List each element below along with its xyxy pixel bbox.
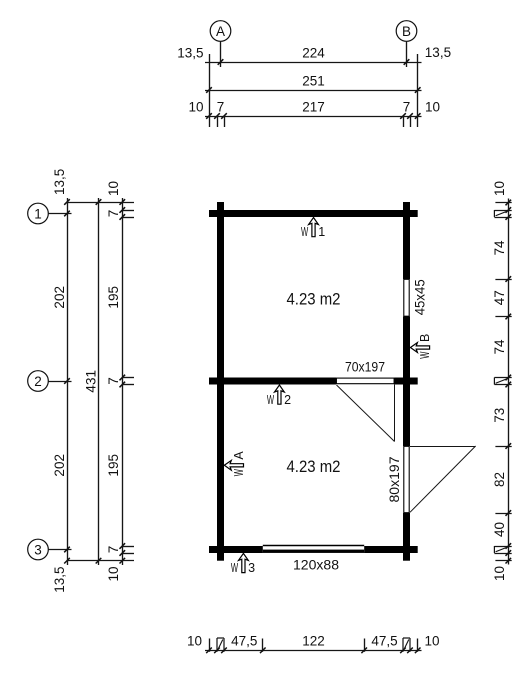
left dim line 10/7/195/7/195/7/10 [122,198,124,565]
svg-text:A: A [232,451,246,460]
grid bubble B [396,21,417,42]
grid bubble A [210,21,231,42]
marker W3 arrow at bottom wall [238,553,248,572]
bottom tick window left [262,639,264,652]
svg-text:122: 122 [302,634,325,649]
svg-text:224: 224 [302,46,325,61]
left block wall face marks grid 3 [122,546,134,548]
grid B riser to dim line [406,41,408,67]
right tick at bottom stub [495,560,511,562]
top block right extension line [417,54,419,127]
bottom wall symbol left [216,638,218,652]
wall: left exterior wall (vertical) [217,202,224,561]
door 70x197 swing (leaf + diagonal) [394,385,396,442]
door 70x197 opening symbol in middle wall [336,378,394,384]
svg-text:74: 74 [492,339,507,355]
window 45x45 symbol in right wall [403,279,410,317]
left block wall face marks grid 2 [122,377,134,379]
svg-text:B: B [418,334,432,342]
svg-text:40: 40 [492,522,507,537]
left dim line 13,5/202/202/13,5 [67,198,69,565]
right tick at top stub [495,202,511,204]
left dim line 431 (overall) [98,198,100,565]
bottom wall symbol right [402,638,404,652]
top block wall face marks left [217,116,219,127]
svg-text:10: 10 [188,100,203,115]
svg-text:251: 251 [302,74,325,89]
svg-text:10: 10 [187,634,202,649]
svg-text:10: 10 [425,100,440,115]
marker W2 arrow at middle wall [275,385,285,404]
left block bottom connector line [67,560,134,562]
svg-text:13,5: 13,5 [52,567,67,593]
svg-text:13,5: 13,5 [425,45,451,60]
wall: right exterior wall segment between window and door [403,317,410,447]
svg-text:47: 47 [492,290,507,305]
window 120x88 symbol in bottom wall [263,545,364,553]
right tick door top [495,446,511,448]
door 80x197 opening symbol in right wall [404,446,409,512]
wall: middle partition wall right segment [395,378,418,385]
top block left extension line [209,54,211,127]
bottom tick right stub [417,639,419,652]
svg-text:4.23 m2: 4.23 m2 [287,457,341,476]
svg-text:1: 1 [34,206,42,221]
svg-text:202: 202 [52,286,67,309]
svg-text:45x45: 45x45 [412,279,427,315]
svg-text:10: 10 [492,181,507,196]
bottom tick left stub [209,639,211,652]
wall: bottom exterior wall [209,546,418,553]
left block wall face marks grid 1 [122,210,134,212]
svg-text:1: 1 [318,225,325,239]
right tick door bottom [495,513,511,515]
svg-text:10: 10 [492,566,507,581]
svg-text:W: W [301,225,308,239]
svg-text:2: 2 [34,374,42,389]
svg-text:13,5: 13,5 [52,169,67,195]
svg-text:217: 217 [302,100,325,115]
svg-text:7: 7 [106,377,121,385]
svg-text:7: 7 [106,210,121,218]
svg-text:B: B [402,24,411,39]
svg-text:W: W [231,561,238,575]
marker W1 arrow at top wall [309,218,319,237]
marker WA arrow at left wall [224,460,243,470]
svg-text:A: A [216,24,225,39]
grid bubble 3 [28,539,49,560]
right wall symbol at grid 3 [494,546,511,548]
svg-text:195: 195 [106,286,121,309]
right tick window bottom [495,316,511,318]
marker WB arrow at right wall [410,343,429,353]
top dim line 224 (A-B) [205,62,422,64]
top dim line 251 (overall) [205,90,422,92]
wall: right exterior wall upper segment [403,202,410,279]
wall: right exterior wall bottom segment [403,513,410,561]
grid bubble 2 [28,371,49,392]
svg-text:7: 7 [217,100,225,115]
grid 2 stub line [48,381,71,383]
bottom dim line [205,650,422,652]
grid bubble 1 [28,203,49,224]
svg-text:3: 3 [248,561,255,575]
svg-text:3: 3 [34,542,42,557]
wall: middle partition wall left segment [209,378,336,385]
top block wall face marks right [403,116,405,127]
svg-text:82: 82 [492,472,507,487]
svg-text:13,5: 13,5 [177,46,203,61]
svg-text:10: 10 [106,181,121,196]
right wall symbol at grid 2 [494,377,511,379]
top dim line 10/7/217/7/10 [205,116,422,118]
grid 3 stub line [48,549,71,551]
svg-text:10: 10 [425,634,440,649]
svg-text:80x197: 80x197 [387,457,402,503]
wall: top exterior wall (horizontal, with log stubs) [209,210,418,217]
svg-text:W: W [232,469,246,476]
svg-text:73: 73 [492,408,507,423]
svg-text:10: 10 [106,567,121,582]
svg-text:431: 431 [84,370,99,393]
right wall symbol at grid 1 [494,210,511,212]
svg-text:7: 7 [106,546,121,554]
svg-text:7: 7 [403,100,411,115]
svg-text:W: W [418,351,432,358]
bottom tick window right [364,639,366,652]
svg-text:47,5: 47,5 [231,634,257,649]
door 80x197 swing (leaf + diagonal) [410,446,476,448]
grid A riser to dim line [220,41,222,67]
right dim line [508,199,510,565]
right tick window top [495,279,511,281]
svg-text:120x88: 120x88 [293,558,339,573]
left block top connector line [67,202,134,204]
svg-text:W: W [267,393,274,407]
svg-text:4.23 m2: 4.23 m2 [287,289,341,308]
svg-text:47,5: 47,5 [371,634,397,649]
svg-text:74: 74 [492,240,507,256]
svg-text:195: 195 [106,454,121,477]
svg-text:70x197: 70x197 [345,360,385,375]
svg-text:202: 202 [52,454,67,477]
grid 1 stub line [48,213,71,215]
svg-text:2: 2 [284,393,291,407]
